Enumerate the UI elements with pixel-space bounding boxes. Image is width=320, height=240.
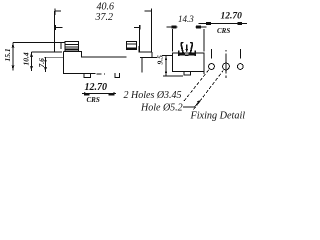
end view leg 1 <box>184 71 191 75</box>
text Fixing Detail <box>190 111 246 122</box>
dim 37.2 right extension line <box>139 30 141 53</box>
dashed leader B to hole 2 <box>194 71 224 110</box>
svg-text:14.3: 14.3 <box>178 14 194 24</box>
dim 12.7 top right line <box>199 23 248 25</box>
dim 7.6 vertical <box>37 57 63 72</box>
end view clip base flange left <box>178 51 180 57</box>
svg-text:15.1: 15.1 <box>3 48 12 61</box>
end view clip base plate <box>179 53 185 56</box>
right fuse clip (striped) <box>127 41 137 49</box>
dim 40.6 right stub arrow <box>145 10 152 12</box>
dim 12.7 CRS bottom text <box>85 82 108 93</box>
dim 9.5 vertical right of front view <box>156 55 184 76</box>
svg-text:CRS: CRS <box>217 27 230 35</box>
svg-text:10.4: 10.4 <box>22 52 31 65</box>
pin 1 front view <box>84 74 91 78</box>
hole 1 <box>209 64 215 70</box>
dim 40.6 right extension line <box>151 11 153 52</box>
svg-text:37.2: 37.2 <box>95 12 114 23</box>
dim 14.3 text <box>178 14 194 24</box>
end view leg 2 <box>203 71 205 74</box>
left fuse clip (striped) <box>65 42 79 52</box>
svg-text:12.70: 12.70 <box>85 82 108 93</box>
svg-text:7.6: 7.6 <box>37 58 46 68</box>
dim 37.2 right stub arrow <box>134 27 140 29</box>
dim 40.6 text <box>97 2 115 13</box>
dim 14.3 right arrow <box>196 26 207 28</box>
leader line from Hole text <box>183 100 201 107</box>
text Hole dia 5.2 <box>140 103 183 114</box>
svg-text:2 Holes Ø3.45: 2 Holes Ø3.45 <box>124 90 182 101</box>
svg-text:Fixing Detail: Fixing Detail <box>190 111 246 122</box>
end view clip base flange right <box>194 51 196 57</box>
dim 40.6 left stub arrow <box>55 10 61 12</box>
dim 14.3 left arrow <box>167 26 178 28</box>
hole 2 (larger, centre) <box>223 63 230 70</box>
dim 12.7 bottom line <box>82 92 116 95</box>
dim 15.1 vertical <box>3 43 65 71</box>
dim 37.2 left stub arrow <box>55 27 63 29</box>
svg-text:40.6: 40.6 <box>97 2 115 13</box>
svg-text:9.5: 9.5 <box>156 55 165 65</box>
dim 12.7 CRS top right text <box>221 12 243 22</box>
extension to hole 3 <box>239 49 241 59</box>
svg-text:CRS: CRS <box>87 96 100 104</box>
dashed leader A to hole 1 <box>184 70 209 102</box>
centreline through hole 2 <box>225 50 227 78</box>
centerline dash between pins <box>97 73 106 75</box>
svg-text:12.70: 12.70 <box>221 12 243 22</box>
dim 40.6 left extension line <box>54 11 56 53</box>
body outline front view <box>64 52 127 58</box>
end view box <box>173 53 205 71</box>
end view clip centre mark <box>186 45 188 52</box>
text 2 Holes dia 3.45 <box>124 90 182 101</box>
dim 14.3 left extension line <box>172 29 174 52</box>
extension to hole 1 <box>211 49 213 59</box>
dim 10.4 vertical <box>22 52 63 71</box>
pin 2 front view <box>115 73 120 77</box>
dim 14.3 right extension line <box>203 29 205 52</box>
dim 37.2 text <box>95 12 114 23</box>
end view clip profile left arm <box>181 43 183 53</box>
hole 3 <box>237 64 243 70</box>
end view clip profile right arm <box>190 43 192 53</box>
svg-text:Hole Ø5.2: Hole Ø5.2 <box>140 103 183 114</box>
dim 37.2 left extension line <box>60 43 62 50</box>
